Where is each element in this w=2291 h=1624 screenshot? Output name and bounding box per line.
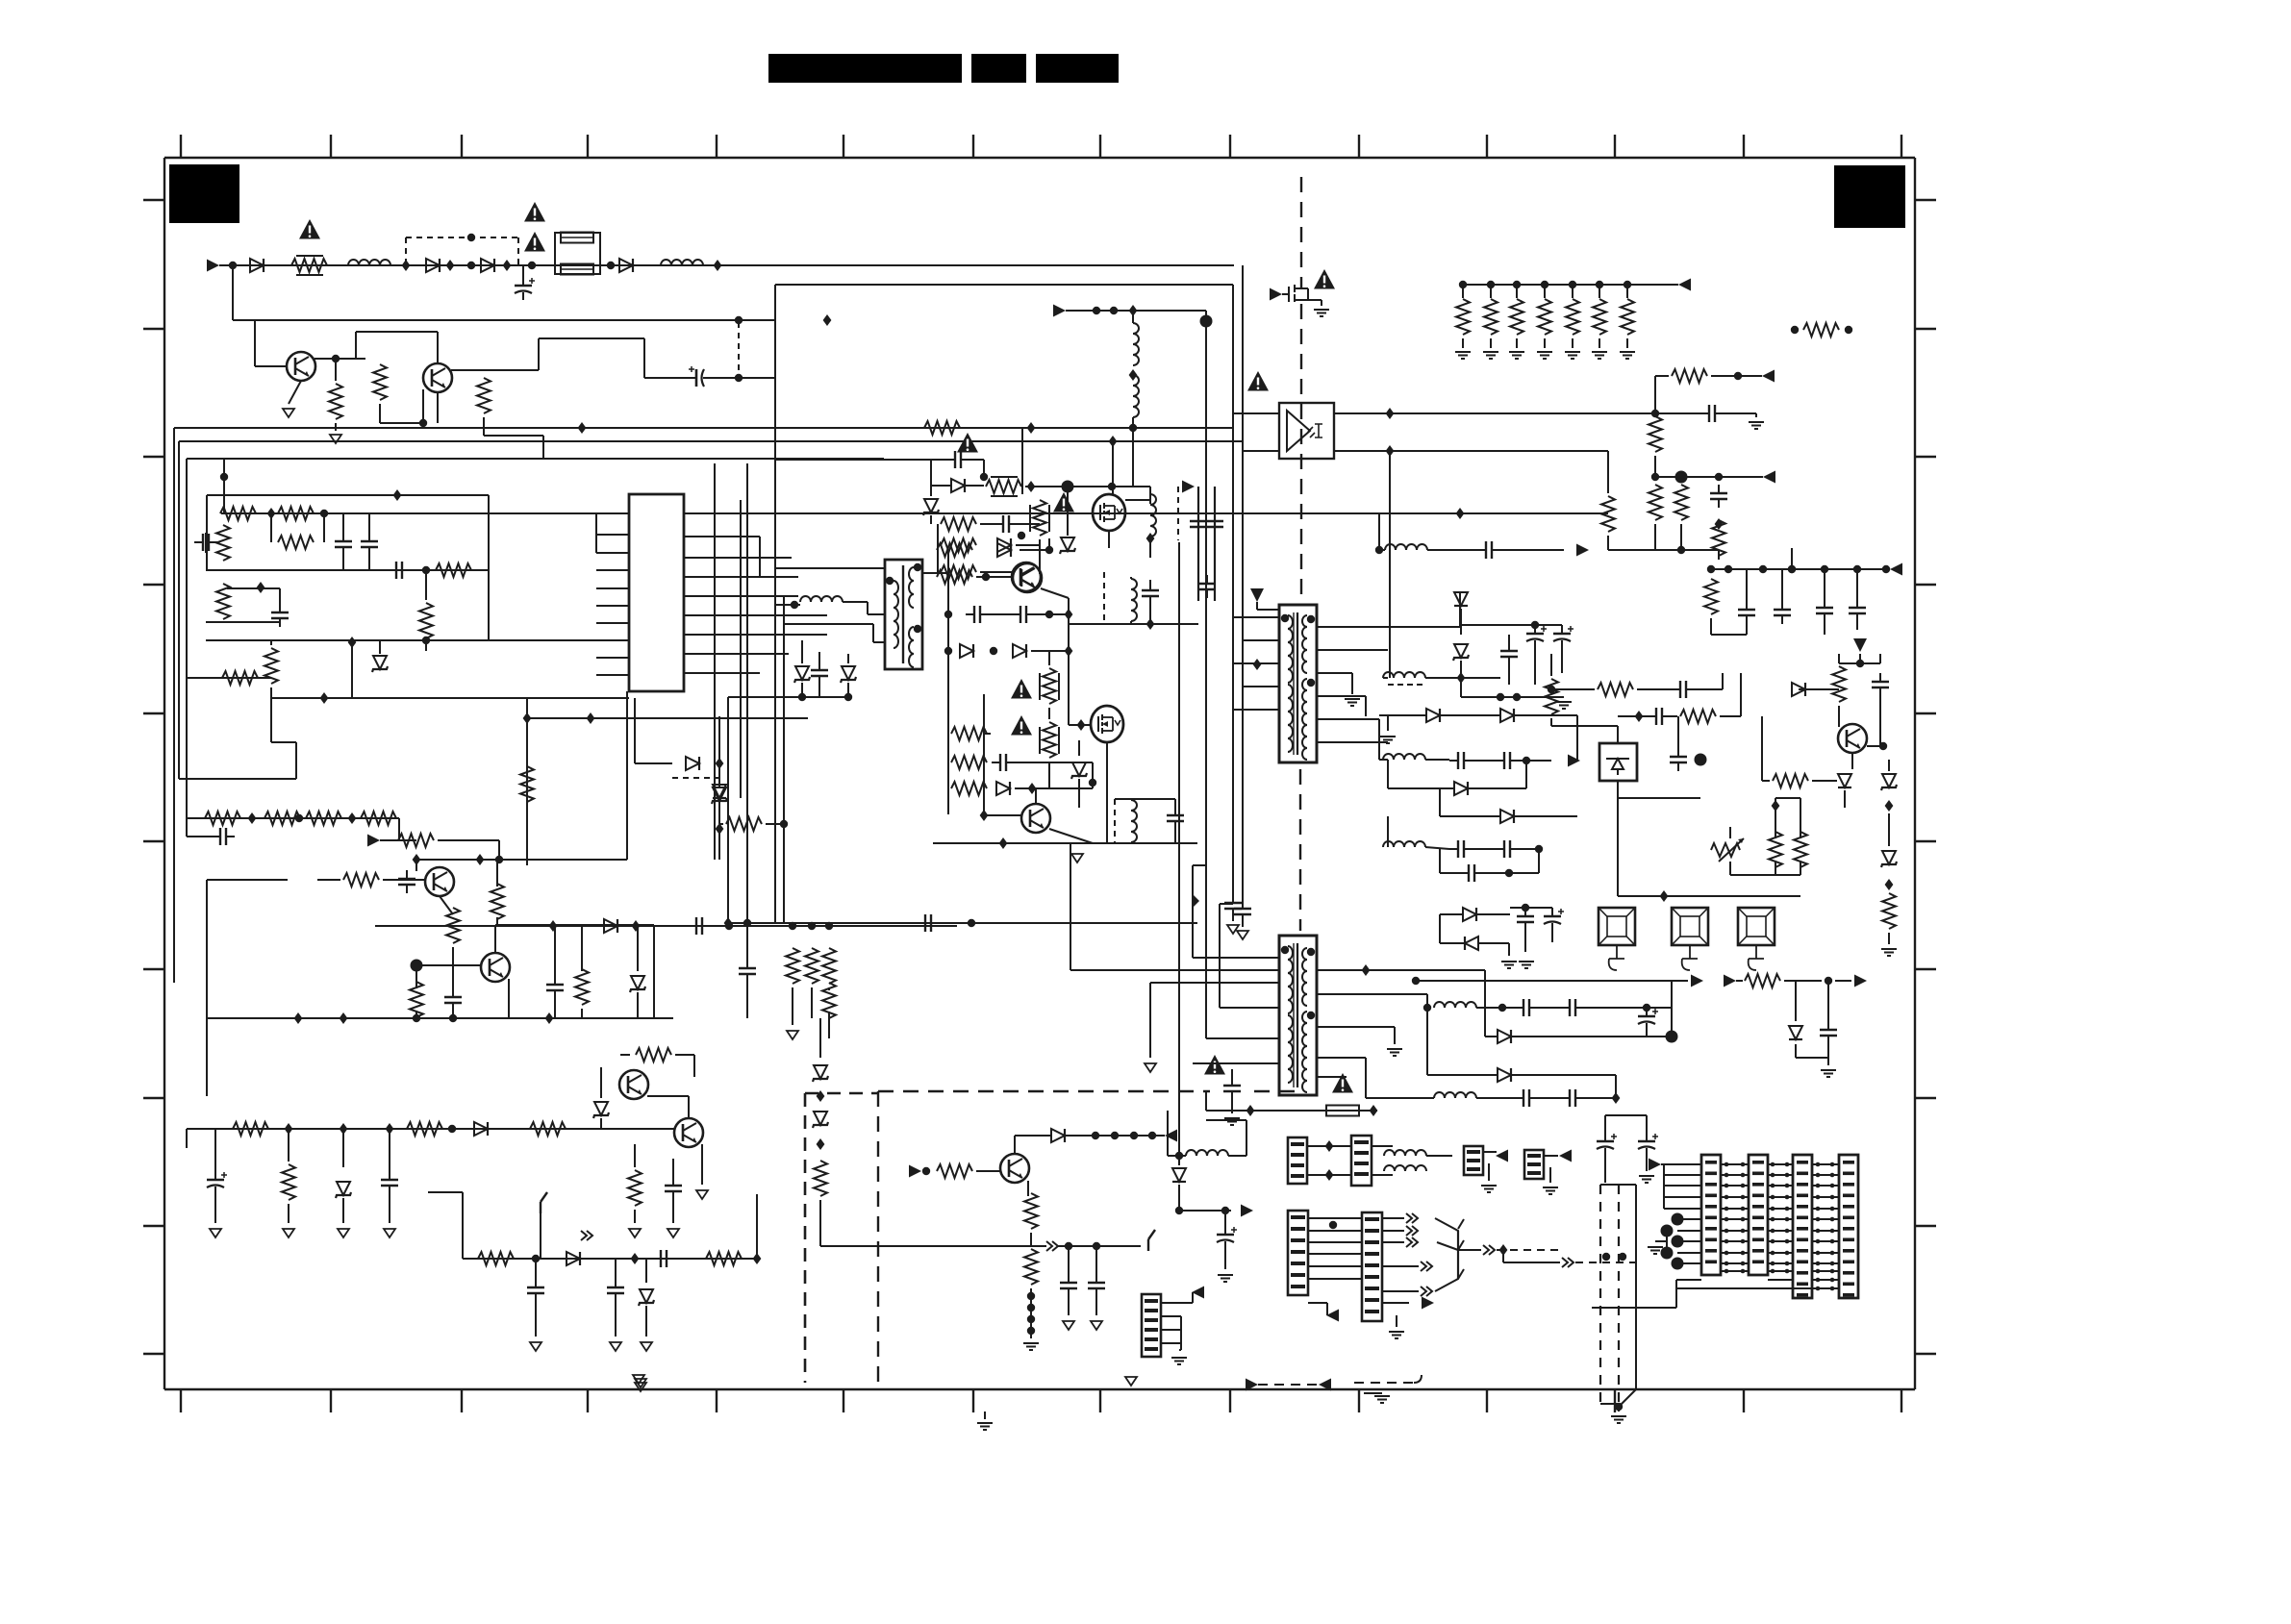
harness bundle bbox=[1457, 1231, 1459, 1279]
capacitor C28 bbox=[1223, 1077, 1241, 1100]
wire bbox=[1317, 626, 1460, 628]
junction bbox=[446, 260, 455, 271]
ground bbox=[1224, 1118, 1240, 1125]
wire bbox=[1179, 1349, 1181, 1351]
wire bbox=[1243, 639, 1279, 641]
wire bbox=[1068, 614, 1070, 725]
wire bbox=[315, 358, 336, 360]
connector pin bbox=[1843, 1227, 1854, 1231]
wire bbox=[484, 435, 543, 437]
junction bbox=[348, 637, 357, 648]
connector arrow bbox=[1046, 1241, 1058, 1251]
transformer winding bbox=[1302, 650, 1307, 662]
wire bbox=[1440, 942, 1465, 944]
capacitor C58 bbox=[1060, 1274, 1077, 1297]
connector pin bbox=[1797, 1205, 1808, 1209]
wire bbox=[937, 524, 939, 545]
wire bbox=[1476, 913, 1510, 915]
signal arrow bbox=[1246, 1379, 1258, 1391]
capacitor C16 bbox=[527, 1279, 544, 1302]
harness wire bbox=[1812, 1240, 1839, 1242]
junction bbox=[1522, 904, 1529, 912]
ground bbox=[1374, 1396, 1390, 1403]
optocoupler U2 box bbox=[1279, 403, 1334, 459]
diode D19 bbox=[1454, 782, 1468, 795]
signal arrow bbox=[1890, 563, 1902, 576]
transistor Q2 bbox=[423, 363, 452, 392]
inductor L5 bbox=[1133, 375, 1139, 417]
resistor R66 bbox=[1674, 485, 1688, 520]
wire bbox=[428, 1191, 463, 1193]
junction bbox=[1830, 1278, 1835, 1283]
wire bbox=[539, 337, 644, 339]
ground bbox=[633, 1375, 644, 1384]
wire bbox=[1525, 761, 1527, 788]
junction bbox=[1741, 1195, 1746, 1200]
wire bbox=[1469, 787, 1526, 789]
wire bbox=[207, 879, 288, 881]
resistor R68 bbox=[1704, 579, 1718, 614]
diode D3 bbox=[481, 259, 494, 272]
junction bbox=[1885, 879, 1894, 890]
junction bbox=[1715, 518, 1724, 530]
capacitor C48 bbox=[1670, 748, 1687, 771]
capacitor C61 bbox=[1142, 582, 1159, 605]
wire bbox=[1561, 625, 1563, 627]
wire bbox=[494, 925, 496, 953]
inner rail wire bbox=[783, 596, 785, 923]
wire bbox=[1078, 740, 1080, 756]
diode D27 bbox=[1789, 1026, 1802, 1039]
capacitor C62 bbox=[1167, 807, 1184, 830]
wire bbox=[1317, 1076, 1347, 1078]
wire bbox=[1791, 548, 1793, 569]
wire bbox=[1178, 1156, 1180, 1165]
capacitor C49 bbox=[1872, 673, 1889, 696]
junction bbox=[1725, 1173, 1729, 1178]
junction bbox=[1027, 1304, 1035, 1312]
resistor R10 bbox=[419, 603, 433, 638]
junction bbox=[1771, 1173, 1775, 1178]
connector pin bbox=[1752, 1238, 1764, 1242]
junction bbox=[1093, 1242, 1100, 1250]
transformer winding bbox=[1302, 627, 1307, 638]
connector J6 bbox=[1288, 1211, 1308, 1295]
wire bbox=[1219, 904, 1221, 923]
row wire bbox=[416, 859, 627, 861]
pin wire bbox=[1307, 1145, 1351, 1147]
signal arrow bbox=[1165, 1130, 1177, 1142]
wire bbox=[1317, 969, 1485, 971]
junction bbox=[1459, 281, 1467, 288]
wire bbox=[186, 1129, 188, 1148]
wire bbox=[1592, 1307, 1676, 1309]
wire bbox=[1626, 285, 1628, 298]
connector pin bbox=[1145, 1318, 1158, 1322]
wire bbox=[1233, 662, 1279, 664]
wire bbox=[1827, 1044, 1829, 1065]
resistor R2 bbox=[329, 384, 342, 419]
junction bbox=[578, 422, 587, 434]
wire bbox=[1427, 549, 1477, 551]
connector pin bbox=[1843, 1293, 1854, 1297]
wire bbox=[233, 319, 775, 321]
junction bbox=[1651, 473, 1659, 481]
wire bbox=[1538, 1097, 1561, 1099]
winding dot bbox=[914, 625, 921, 633]
wire bbox=[1812, 780, 1837, 782]
wire bbox=[1351, 673, 1353, 694]
connector pin bbox=[1365, 1252, 1379, 1256]
transformer winding bbox=[1302, 1012, 1307, 1023]
junction bbox=[1077, 719, 1086, 731]
junction bbox=[1661, 1225, 1674, 1237]
MOSFET Q9 bbox=[1093, 494, 1125, 531]
capacitor C33 bbox=[1816, 599, 1833, 622]
wire bbox=[483, 417, 485, 436]
capacitor C43 bbox=[1460, 864, 1483, 882]
wire bbox=[645, 1259, 647, 1283]
long wire bbox=[1242, 265, 1244, 904]
connector pin bbox=[1752, 1261, 1764, 1264]
warning symbol bbox=[524, 232, 545, 252]
wire bbox=[1015, 787, 1093, 789]
transformer winding bbox=[1302, 1058, 1307, 1069]
wire bbox=[1130, 577, 1132, 579]
wire bbox=[1394, 1027, 1396, 1044]
ground bbox=[1023, 1343, 1039, 1350]
wire bbox=[1378, 719, 1380, 760]
wire bbox=[399, 839, 416, 841]
ground bbox=[610, 1342, 621, 1351]
wire bbox=[440, 896, 453, 914]
ground bbox=[635, 1379, 646, 1387]
signal arrow bbox=[1576, 544, 1589, 557]
wire bbox=[1224, 1211, 1226, 1228]
wire bbox=[1524, 908, 1526, 910]
harness wire bbox=[1768, 1252, 1793, 1254]
zener diode ZD1 bbox=[372, 656, 388, 672]
wire bbox=[1800, 827, 1801, 838]
ground bbox=[1145, 1063, 1156, 1072]
ground bbox=[1483, 352, 1498, 359]
warning symbol bbox=[1314, 269, 1335, 289]
wire bbox=[1654, 412, 1656, 414]
IC pin 12 wire bbox=[684, 536, 760, 537]
long wire bbox=[1178, 542, 1180, 1156]
wire bbox=[1228, 1155, 1246, 1157]
diode D17 bbox=[1426, 709, 1440, 722]
transformer winding bbox=[1302, 971, 1307, 983]
junction bbox=[1111, 1132, 1119, 1139]
wire bbox=[1666, 1231, 1668, 1253]
wire bbox=[818, 685, 820, 697]
film capacitor C26 bbox=[1197, 487, 1199, 601]
connector pin bbox=[1797, 1249, 1808, 1253]
resistor R4 bbox=[477, 378, 491, 413]
wire bbox=[1167, 1111, 1169, 1156]
wire bbox=[595, 535, 597, 553]
wire bbox=[1617, 726, 1619, 743]
wire bbox=[1388, 787, 1454, 789]
wire bbox=[1502, 1250, 1504, 1262]
wire bbox=[1762, 780, 1770, 782]
wire bbox=[1397, 1302, 1409, 1304]
tick mark bbox=[587, 1389, 589, 1412]
connector pin bbox=[1752, 1216, 1764, 1220]
connector pin bbox=[1705, 1238, 1717, 1242]
wire bbox=[1014, 1136, 1016, 1154]
wire bbox=[1150, 982, 1279, 984]
wire bbox=[989, 613, 1012, 615]
tick mark bbox=[1915, 199, 1936, 201]
resistor R17 bbox=[306, 812, 341, 825]
capacitor C21 bbox=[917, 914, 940, 932]
harness wire bbox=[1768, 1230, 1793, 1232]
junction bbox=[780, 820, 788, 828]
junction bbox=[1089, 779, 1096, 787]
tick mark bbox=[1915, 456, 1936, 458]
wire bbox=[976, 576, 1013, 578]
zener diode ZD11 bbox=[923, 499, 939, 515]
wire bbox=[1220, 903, 1233, 905]
zener diode ZD3 bbox=[336, 1182, 351, 1198]
IC pin 15 wire bbox=[684, 595, 760, 597]
harness wire bbox=[1812, 1287, 1839, 1289]
capacitor plate bbox=[1206, 512, 1223, 536]
junction bbox=[1771, 1217, 1775, 1222]
junction bbox=[1830, 1229, 1835, 1234]
wire bbox=[1584, 1097, 1616, 1099]
signal arrow bbox=[1182, 481, 1195, 493]
wire bbox=[496, 917, 498, 925]
diode D11 bbox=[1013, 644, 1026, 658]
junction bbox=[1146, 533, 1155, 544]
supply arrow bbox=[1193, 894, 1199, 908]
harness wire bbox=[1812, 1230, 1839, 1232]
junction bbox=[1816, 1173, 1821, 1178]
junction bbox=[1498, 1004, 1506, 1012]
winding dot bbox=[886, 577, 894, 585]
wire bbox=[1174, 799, 1176, 809]
ferrite bead box bbox=[1599, 908, 1635, 945]
wire bbox=[1388, 684, 1425, 686]
wire bbox=[1035, 613, 1069, 615]
wire bbox=[323, 513, 325, 542]
wire bbox=[254, 320, 256, 366]
capacitor C1 bbox=[515, 277, 535, 300]
wire bbox=[1460, 609, 1462, 635]
junction bbox=[798, 693, 806, 701]
wire bbox=[1232, 894, 1234, 904]
wire bbox=[1383, 677, 1388, 679]
row wire bbox=[206, 621, 279, 623]
transistor Q4 bbox=[481, 953, 510, 982]
connector pin bbox=[1705, 1172, 1717, 1176]
junction bbox=[1791, 326, 1799, 334]
wire bbox=[1838, 654, 1840, 663]
junction bbox=[1675, 471, 1688, 484]
ground bbox=[787, 1031, 798, 1039]
junction bbox=[1785, 1229, 1790, 1234]
wire bbox=[1617, 798, 1619, 827]
wire bbox=[976, 1170, 1000, 1172]
wire bbox=[1015, 1135, 1051, 1137]
wire bbox=[1257, 609, 1279, 611]
wire bbox=[980, 571, 1012, 573]
connector pin bbox=[1365, 1275, 1379, 1279]
wire bbox=[1115, 798, 1175, 800]
wire bbox=[1095, 1295, 1097, 1315]
wire bbox=[634, 1210, 636, 1223]
wire bbox=[801, 654, 803, 663]
ground bbox=[1227, 925, 1239, 934]
ground bbox=[338, 1229, 349, 1237]
inductor L7 bbox=[1385, 544, 1427, 550]
junction bbox=[1362, 964, 1371, 976]
junction bbox=[1615, 1403, 1623, 1411]
wire bbox=[342, 556, 344, 570]
wire bbox=[1516, 285, 1518, 298]
harness wire bbox=[1768, 1208, 1793, 1210]
junction bbox=[332, 355, 340, 362]
bead lead wire bbox=[1749, 945, 1764, 970]
wire bbox=[380, 422, 423, 424]
junction bbox=[1672, 1213, 1684, 1226]
wire bbox=[206, 495, 208, 570]
row wire bbox=[820, 1245, 1020, 1247]
transformer winding bbox=[1302, 702, 1307, 713]
wire bbox=[1550, 665, 1552, 676]
output arrow bbox=[1724, 975, 1736, 987]
wire bbox=[1473, 848, 1496, 850]
junction bbox=[1830, 1287, 1835, 1291]
junction bbox=[1856, 660, 1864, 667]
junction bbox=[1108, 483, 1116, 490]
ground bbox=[330, 435, 341, 443]
redacted title block bbox=[971, 54, 1026, 83]
wire bbox=[1132, 311, 1134, 323]
wire bbox=[760, 634, 827, 636]
wire bbox=[1425, 759, 1449, 761]
wire bbox=[1856, 569, 1858, 601]
connector pin bbox=[1291, 1215, 1305, 1219]
junction bbox=[1771, 1239, 1775, 1244]
wire bbox=[335, 359, 337, 381]
wire bbox=[1718, 550, 1720, 560]
capacitor C53 bbox=[1561, 1089, 1584, 1107]
junction bbox=[607, 262, 615, 269]
wire bbox=[342, 1129, 344, 1167]
junction bbox=[476, 854, 485, 865]
wire bbox=[1030, 1233, 1032, 1246]
resistor R42 bbox=[951, 782, 987, 795]
capacitor C42 bbox=[1496, 840, 1519, 858]
bus wire bbox=[178, 441, 180, 779]
wire bbox=[1070, 843, 1071, 970]
electrolytic capacitor C45 bbox=[1544, 908, 1564, 931]
wire bbox=[1488, 1163, 1490, 1181]
signal arrow bbox=[1649, 1159, 1661, 1171]
inductor L2 bbox=[661, 260, 703, 265]
ground bbox=[1345, 699, 1360, 706]
transformer winding bbox=[1302, 748, 1307, 760]
connector pin bbox=[1467, 1167, 1480, 1171]
junction bbox=[990, 647, 997, 655]
wire bbox=[983, 694, 985, 815]
transistor Q1 bbox=[287, 352, 315, 381]
bus wire bbox=[187, 1128, 635, 1130]
signal arrow bbox=[1559, 1150, 1572, 1162]
wire bbox=[672, 777, 719, 779]
wire bbox=[1180, 1316, 1182, 1350]
diode D28 bbox=[1051, 1129, 1065, 1142]
connector arrow bbox=[581, 1231, 592, 1240]
ground bbox=[283, 409, 294, 417]
junction bbox=[1785, 1173, 1790, 1178]
capacitor C17 bbox=[607, 1279, 624, 1302]
harness wire bbox=[1721, 1163, 1749, 1165]
wire bbox=[819, 1018, 821, 1058]
capacitor C47 bbox=[1648, 708, 1671, 725]
harness wire bbox=[1664, 1174, 1701, 1176]
tick mark bbox=[1486, 135, 1488, 158]
tick mark bbox=[143, 712, 164, 714]
resistor R16 bbox=[264, 812, 300, 825]
warning symbol bbox=[1011, 715, 1032, 736]
capacitor C63 bbox=[1224, 894, 1242, 917]
connector J9 bbox=[1749, 1155, 1768, 1275]
wire bbox=[1619, 1389, 1636, 1407]
wire bbox=[1308, 299, 1322, 301]
wire bbox=[1168, 1155, 1186, 1157]
junction bbox=[1785, 1239, 1790, 1244]
bus wire bbox=[1711, 568, 1890, 570]
wire bbox=[746, 981, 748, 1018]
wire bbox=[1605, 1114, 1647, 1116]
wire bbox=[1317, 649, 1388, 651]
wire bbox=[1549, 1167, 1551, 1183]
connector pin bbox=[1752, 1227, 1764, 1231]
connector pin bbox=[1354, 1151, 1369, 1155]
wire bbox=[1710, 618, 1712, 635]
connector J11 bbox=[1839, 1155, 1858, 1298]
electrolytic capacitor C54 bbox=[1638, 1008, 1658, 1031]
diode D22 bbox=[1465, 937, 1478, 950]
wire bbox=[1440, 714, 1500, 716]
connector pin bbox=[1843, 1161, 1854, 1164]
IC pin 7 wire bbox=[596, 622, 629, 624]
junction bbox=[1788, 565, 1796, 573]
junction bbox=[1619, 1253, 1626, 1261]
tick mark bbox=[1743, 1389, 1745, 1412]
junction bbox=[980, 473, 988, 481]
junction bbox=[944, 611, 952, 618]
connector pin bbox=[1145, 1337, 1158, 1341]
junction bbox=[1788, 565, 1796, 573]
resistor R14 bbox=[520, 766, 534, 802]
wire bbox=[1382, 1217, 1404, 1219]
junction bbox=[823, 314, 832, 326]
wire bbox=[1219, 923, 1221, 1008]
harness wire bbox=[1768, 1174, 1793, 1176]
wire bbox=[232, 265, 234, 320]
connector pin bbox=[1291, 1285, 1305, 1288]
capacitor C5 bbox=[194, 534, 217, 551]
wire bbox=[1490, 338, 1492, 348]
junction bbox=[1885, 800, 1894, 812]
wire bbox=[873, 641, 885, 643]
